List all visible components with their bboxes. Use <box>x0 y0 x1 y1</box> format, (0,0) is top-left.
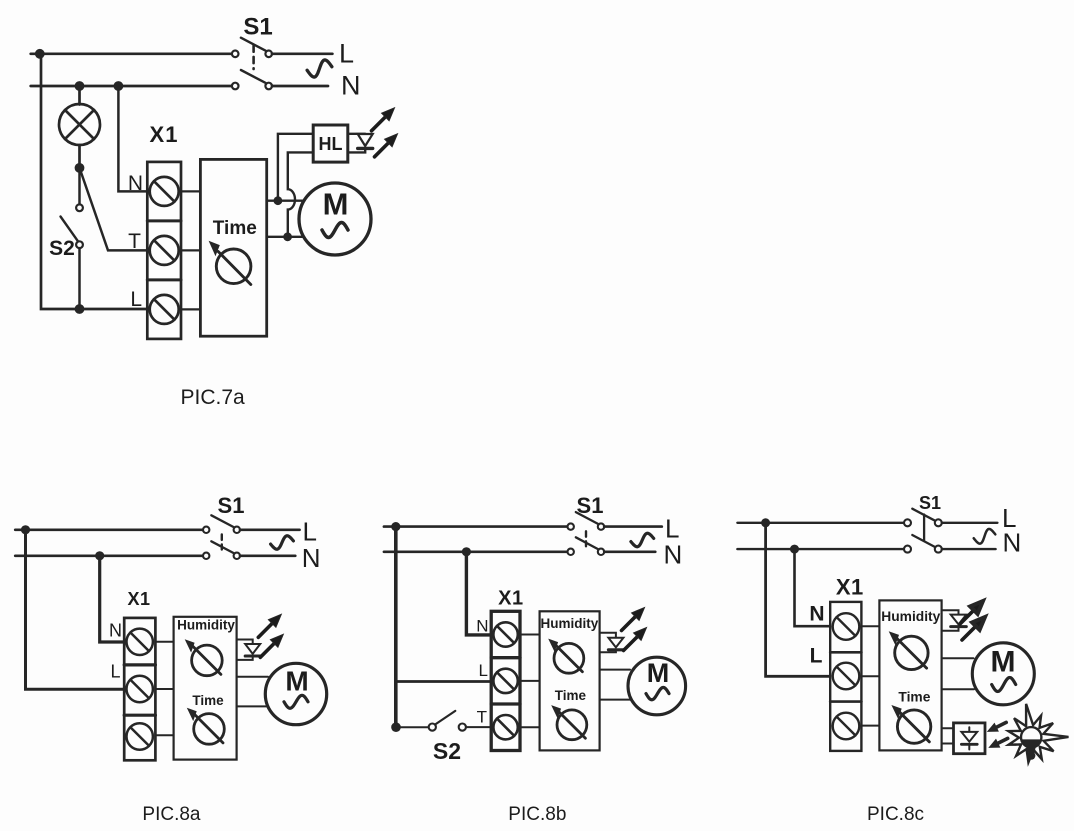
wire N right <box>604 550 655 553</box>
svg-text:N: N <box>128 172 143 195</box>
svg-text:N: N <box>1003 527 1022 557</box>
switch S2 right contact <box>459 724 466 731</box>
wire L bus top <box>31 52 232 55</box>
wire L right <box>942 522 998 524</box>
terminal X1-L <box>150 295 179 324</box>
wire N right <box>240 554 295 557</box>
terminal X1-L <box>493 669 517 693</box>
svg-text:S1: S1 <box>243 14 272 41</box>
switch S1 mechanical link (dashed) <box>252 46 255 70</box>
switch S1 pole N contacts <box>568 549 574 555</box>
wire left L feeder <box>766 523 831 677</box>
AC sine symbol <box>631 533 654 546</box>
LED light arrow 2 <box>260 634 283 657</box>
svg-text:Time: Time <box>555 688 587 703</box>
wire L bus <box>384 525 568 528</box>
wire N to terminal <box>272 85 328 88</box>
wire lamp B <box>942 743 954 745</box>
wire motor A <box>600 669 630 671</box>
wire L right <box>604 525 662 528</box>
wire X1-L to controller <box>155 688 173 690</box>
svg-text:N: N <box>476 617 488 636</box>
controller module box <box>174 617 237 760</box>
lamp driver box <box>954 723 986 754</box>
AC sine symbol <box>974 529 996 544</box>
controller module box <box>540 611 600 750</box>
LED D1 light arrow 1 <box>372 108 395 131</box>
motor M sine <box>646 687 669 699</box>
terminal X1-T <box>493 715 517 739</box>
LED light arrow 1 <box>960 601 983 624</box>
lamp EL1 bottom lead <box>78 145 81 168</box>
switch S1 pole L lever <box>576 512 598 524</box>
svg-text:N: N <box>809 603 824 626</box>
switch S2 lever <box>61 217 79 242</box>
LED light arrow 1 <box>622 608 645 631</box>
terminal X1-T <box>150 236 179 265</box>
node out A junction <box>274 196 283 205</box>
wire HL top lead <box>278 134 313 201</box>
switch S2 bottom lead <box>78 248 81 309</box>
wire X1-L to timer <box>181 308 200 310</box>
svg-text:L: L <box>810 645 823 668</box>
lamp LED symbol in box <box>968 727 970 732</box>
time dial <box>897 710 930 743</box>
controller module box <box>879 600 941 750</box>
switch S1 link solid <box>923 515 925 541</box>
switch S1 pole L contacts <box>232 51 239 58</box>
svg-text:PIC.8a: PIC.8a <box>142 804 201 825</box>
LED light arrow 1 <box>258 614 281 637</box>
wire L right <box>240 528 300 531</box>
svg-text:Time: Time <box>192 693 224 708</box>
wire X1-N to controller <box>155 641 173 643</box>
wire N bus <box>15 554 203 557</box>
terminal block X1 <box>124 618 155 760</box>
wire L row to X1 <box>396 680 491 683</box>
terminal X1-3 <box>127 723 153 749</box>
LED light arrow 2 <box>624 628 647 651</box>
terminal block X1 <box>830 602 861 751</box>
terminal X1-L <box>833 663 860 690</box>
svg-text:L: L <box>130 288 142 311</box>
switch S1 pole N contacts <box>904 546 911 553</box>
svg-text:N: N <box>341 71 361 101</box>
light arrow left 2 <box>998 738 1008 743</box>
node N junction <box>462 547 471 556</box>
svg-text:N: N <box>302 543 321 573</box>
wire X1-3 to controller <box>861 725 879 727</box>
switch S1 pole N contacts <box>203 553 209 559</box>
wire X1-T to controller <box>520 726 540 728</box>
wire N right <box>942 548 996 550</box>
svg-text:S2: S2 <box>433 738 461 764</box>
svg-text:L: L <box>339 39 354 69</box>
wire timer out B <box>267 236 304 238</box>
humidity dial <box>192 645 223 676</box>
svg-text:PIC.8b: PIC.8b <box>508 804 566 825</box>
timer module box <box>200 159 266 336</box>
motor M sine <box>284 695 308 708</box>
wire lamp A <box>942 727 954 729</box>
lamp EL1 <box>59 104 100 145</box>
switch S2 left contact <box>429 724 436 731</box>
humidity dial <box>554 643 584 673</box>
switch S1 pole L lever <box>241 38 266 51</box>
wire X1-N to controller <box>520 634 540 636</box>
wire lamp to T terminal (diagonal) <box>80 168 148 251</box>
LED D1 wires <box>348 133 365 135</box>
wire motor B <box>600 699 631 701</box>
svg-text:T: T <box>128 230 141 253</box>
switch S1 pole N lever <box>912 535 935 547</box>
node N-X1 junction <box>114 81 124 91</box>
svg-text:S2: S2 <box>49 237 75 260</box>
switch S1 pole N lever <box>576 537 598 549</box>
AC sine symbol <box>307 60 332 77</box>
svg-text:M: M <box>285 666 308 697</box>
wire L bus <box>737 522 904 524</box>
timer dial <box>216 249 251 284</box>
svg-text:S1: S1 <box>919 493 941 513</box>
terminal block X1 (bold) <box>491 611 520 750</box>
switch S1 pole N lever <box>241 70 266 83</box>
switch S2 wire right <box>466 726 491 728</box>
LED symbol <box>245 644 260 654</box>
node lamp-S2 bottom junction <box>75 304 85 314</box>
motor M circle <box>265 663 326 724</box>
wire L bus <box>15 528 203 531</box>
wire N drop to X1 <box>795 549 831 626</box>
switch S1 link dashed <box>585 531 587 546</box>
terminal block X1 <box>147 162 181 339</box>
wire HL bottom lead with hop <box>288 152 313 236</box>
LED wires <box>600 633 616 638</box>
lamp bulb <box>1021 727 1041 747</box>
wire N drop to X1 (bold) <box>466 552 491 635</box>
humidity dial <box>895 636 928 669</box>
wire X1-3 to controller <box>155 734 173 736</box>
motor M circle <box>628 657 686 715</box>
svg-text:Time: Time <box>213 218 257 239</box>
terminal X1-L <box>127 676 153 702</box>
terminal X1-3 <box>833 713 860 740</box>
node lamp bottom junction <box>75 163 85 173</box>
svg-text:X1: X1 <box>836 575 864 600</box>
lamp starburst <box>1008 704 1068 762</box>
LED wires <box>237 640 253 645</box>
svg-text:L: L <box>303 517 317 547</box>
wire left vertical L feeder <box>41 54 147 309</box>
switch S2 lever <box>435 711 455 725</box>
switch S1 pole L contacts <box>568 523 574 529</box>
AC sine symbol <box>271 536 294 549</box>
svg-text:Time: Time <box>898 690 930 705</box>
motor M sine <box>992 678 1016 692</box>
node N junction <box>790 545 799 554</box>
time dial <box>194 714 225 745</box>
wire motor B <box>942 688 974 690</box>
svg-text:N: N <box>664 540 683 570</box>
node L junction <box>21 525 30 534</box>
LED symbol <box>951 615 967 625</box>
svg-text:X1: X1 <box>498 588 523 610</box>
switch S1 link dashed <box>221 535 223 550</box>
svg-text:Humidity: Humidity <box>541 616 599 631</box>
indicator HL box <box>313 125 348 162</box>
node S2 junction <box>391 722 401 732</box>
time dial <box>557 710 587 740</box>
switch S2 top lead <box>78 168 81 204</box>
switch S1 pole N contacts <box>232 83 239 90</box>
svg-text:PIC.7a: PIC.7a <box>181 386 246 409</box>
wire X1-T to timer <box>181 249 200 251</box>
switch S1 pole L lever <box>912 509 935 521</box>
switch S2 bottom contact <box>76 241 83 248</box>
node out B junction <box>283 232 292 241</box>
LED wires <box>942 610 959 614</box>
svg-text:X1: X1 <box>150 122 179 147</box>
wire motor A <box>237 676 268 678</box>
svg-text:M: M <box>647 658 670 688</box>
terminal X1-N <box>833 613 860 640</box>
svg-text:Humidity: Humidity <box>177 618 235 633</box>
switch S1 pole L lever <box>211 515 233 527</box>
svg-text:PIC.8c: PIC.8c <box>867 804 924 825</box>
wire X1-L to controller <box>520 680 540 682</box>
svg-text:L: L <box>479 661 488 680</box>
wire X1-N to timer <box>181 190 200 192</box>
wire timer out A <box>267 199 304 201</box>
LED symbol <box>608 638 623 648</box>
wire N bus <box>31 85 232 88</box>
terminal X1-N <box>127 629 153 655</box>
wire left L feeder (bold) <box>394 527 398 728</box>
wire N bus <box>384 550 568 553</box>
light arrow left 1 <box>997 722 1007 727</box>
switch S2 wire left <box>396 726 428 728</box>
svg-text:T: T <box>477 708 487 727</box>
svg-text:M: M <box>323 187 349 222</box>
svg-text:M: M <box>991 646 1016 679</box>
wire N drop to X1 <box>100 556 125 642</box>
node L junction <box>761 518 770 527</box>
wire N drop to X1 <box>118 86 147 191</box>
motor M1 sine <box>322 223 348 238</box>
svg-text:HL: HL <box>319 134 343 154</box>
lamp EL1 top lead <box>78 86 81 105</box>
wire motor B <box>237 705 269 707</box>
wire L to terminal <box>272 52 332 55</box>
switch S1 pole L contacts <box>203 527 209 533</box>
wire motor A <box>942 657 974 659</box>
terminal X1-N <box>150 177 179 206</box>
node L junction <box>391 522 400 531</box>
LED D1 light arrow 2 <box>375 134 398 157</box>
wire left L feeder <box>26 530 125 689</box>
motor M circle <box>972 643 1034 705</box>
switch S2 top contact <box>76 204 83 211</box>
svg-text:N: N <box>109 621 122 641</box>
LED light arrow 2 <box>962 617 985 640</box>
motor M1 circle <box>299 183 371 255</box>
terminal X1-N <box>493 622 517 646</box>
node N-lamp junction <box>75 81 85 91</box>
svg-text:L: L <box>110 662 120 682</box>
svg-text:X1: X1 <box>127 589 150 609</box>
wire N bus <box>737 548 904 550</box>
switch S1 pole N lever <box>211 541 233 553</box>
switch S1 pole L contacts <box>904 519 911 526</box>
wire X1-N to controller <box>861 625 879 627</box>
node L-bus junction <box>35 49 45 59</box>
svg-text:S1: S1 <box>218 493 245 518</box>
LED D1 symbol <box>358 134 373 146</box>
node N junction <box>95 551 104 560</box>
wire X1-L to controller <box>861 675 879 677</box>
svg-text:Humidity: Humidity <box>881 609 940 624</box>
